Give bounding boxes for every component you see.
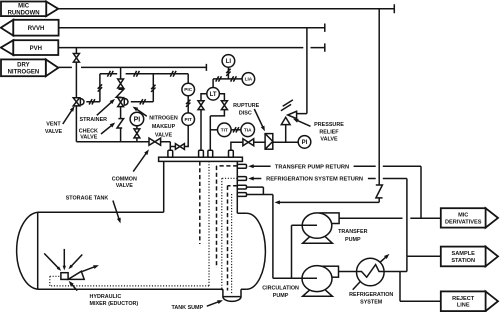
pipe common line <box>76 142 170 151</box>
pipe refrigeration system return <box>252 179 407 257</box>
check valve <box>117 119 124 128</box>
dip tube dashed C <box>228 186 238 291</box>
svg-text:TANK SUMP: TANK SUMP <box>172 305 204 311</box>
pipe to sample station <box>407 255 441 257</box>
tank right head <box>247 213 266 289</box>
valve V1 PVH isolation <box>73 54 79 63</box>
flag DRY NITROGEN <box>46 59 59 76</box>
svg-text:PUMP: PUMP <box>273 293 289 299</box>
svg-text:RUPTURE: RUPTURE <box>233 103 259 109</box>
nozzle stub N1 <box>168 150 173 157</box>
nozzle A <box>237 164 246 168</box>
valve PIT isolation <box>175 144 184 150</box>
svg-text:HYDRAULIC: HYDRAULIC <box>90 294 122 300</box>
mixer spray arrows <box>44 253 59 269</box>
svg-text:PI: PI <box>134 117 141 124</box>
pipe to reject line <box>400 272 441 302</box>
pipe nozzle D to circulation pump suction <box>247 195 318 279</box>
svg-text:RELIEF: RELIEF <box>319 129 339 135</box>
PRV spring <box>281 100 293 111</box>
instrument LI <box>222 55 235 68</box>
pipe PRV outlet to RVVH <box>297 28 307 114</box>
pipe rundown drop <box>277 9 379 203</box>
svg-text:LT: LT <box>210 92 217 98</box>
valve PI isolation <box>134 129 140 138</box>
nozzle C <box>237 185 246 189</box>
svg-text:TIT: TIT <box>221 128 228 133</box>
svg-text:PVH: PVH <box>30 46 42 52</box>
dip tube dashed 1 <box>199 161 201 244</box>
valve V3 makeup isolation <box>118 79 124 88</box>
svg-text:MIC: MIC <box>18 4 30 10</box>
dip tube dotted refrigeration return <box>222 178 238 290</box>
svg-text:NITROGEN: NITROGEN <box>149 116 178 122</box>
instrument TIT <box>218 123 232 137</box>
instrument PIC <box>182 83 195 96</box>
svg-text:STRAINER: STRAINER <box>80 117 108 123</box>
nozzle stub N3 <box>208 150 213 157</box>
pipe LT lower tap <box>210 94 224 150</box>
vent valve V2 <box>73 98 79 106</box>
pipe transfer pump suction <box>292 225 318 278</box>
signal LT to LIA <box>213 78 242 80</box>
svg-text:NITROGEN: NITROGEN <box>8 69 40 75</box>
instrument LT <box>212 79 214 88</box>
valve LT upper <box>198 101 204 110</box>
pipe refrigeration outlet <box>384 256 407 271</box>
svg-text:LINE: LINE <box>457 303 470 309</box>
svg-text:STORAGE TANK: STORAGE TANK <box>66 195 109 201</box>
signal TIT-TIA <box>231 129 241 131</box>
instrument PI <box>130 112 144 126</box>
svg-text:MIC: MIC <box>458 213 468 219</box>
nitrogen makeup valve <box>118 98 124 107</box>
rupture disc <box>265 134 273 150</box>
signal line to vent valve <box>86 74 100 102</box>
pipe PVH header (gap at RVVH drop) <box>58 43 325 51</box>
valve LT lower <box>221 101 227 110</box>
mixer outlet arrow <box>81 266 97 272</box>
nozzle D <box>237 193 246 197</box>
nozzle B <box>237 177 246 181</box>
tank sump <box>223 289 241 301</box>
svg-text:REFRIGERATION: REFRIGERATION <box>349 292 393 298</box>
pipe vent riser <box>75 48 77 142</box>
flag PVH <box>1 40 14 55</box>
svg-text:TRANSFER PUMP RETURN: TRANSFER PUMP RETURN <box>275 164 349 170</box>
signal PIC-PIT <box>187 96 189 113</box>
instrument LIA <box>242 73 255 86</box>
flag MIC DERIVATIVES <box>486 208 498 227</box>
tank manway plate <box>159 157 243 161</box>
svg-text:TRANSFER: TRANSFER <box>338 229 367 235</box>
svg-text:LIA: LIA <box>245 77 253 82</box>
svg-text:VALVE: VALVE <box>80 134 98 140</box>
svg-text:COMMON: COMMON <box>112 177 137 183</box>
pipe rupture disc line <box>231 142 298 150</box>
hydraulic mixer (eductor) <box>61 273 68 280</box>
flag REJECT LINE <box>486 291 498 311</box>
svg-text:VENT: VENT <box>46 121 61 127</box>
circulation pump <box>320 266 339 277</box>
instrument PIT <box>182 113 195 126</box>
arrow rundown to suction <box>275 200 280 204</box>
common valve <box>149 138 161 145</box>
svg-text:VALVE: VALVE <box>45 129 63 135</box>
svg-text:REJECT: REJECT <box>452 296 475 302</box>
storage tank shell <box>38 161 247 213</box>
svg-text:SAMPLE: SAMPLE <box>452 251 476 257</box>
signal header from PIC (gap at makeup branch) <box>100 74 188 83</box>
nozzle stub N4 <box>229 150 234 157</box>
pipe circulation discharge <box>339 271 357 273</box>
pipe transfer pump return <box>252 166 421 218</box>
svg-text:REFRIGERATION SYSTEM RETURN: REFRIGERATION SYSTEM RETURN <box>266 177 363 183</box>
pipe dry nitrogen main (gap at vent riser) <box>58 64 206 71</box>
signal LI drop <box>227 67 229 79</box>
instrument PI relief <box>298 136 311 149</box>
instrument TIA <box>241 123 255 137</box>
nozzle stub N2 <box>199 150 204 157</box>
svg-text:DRY: DRY <box>17 63 29 69</box>
pipe RVVH header <box>59 24 325 32</box>
svg-text:STATION: STATION <box>451 258 475 264</box>
pipe PRV inlet <box>285 125 287 142</box>
strainer <box>116 89 124 97</box>
svg-text:PIT: PIT <box>185 117 192 122</box>
pipe LT upper tap <box>201 94 207 150</box>
svg-text:LI: LI <box>226 59 232 65</box>
svg-text:VALVE: VALVE <box>320 136 338 142</box>
actuator cap vent valve <box>80 99 84 105</box>
dip tube dotted sump <box>231 194 233 295</box>
pipe MIC rundown header <box>58 4 394 13</box>
svg-text:DISC: DISC <box>239 110 252 116</box>
svg-text:VALVE: VALVE <box>116 183 134 189</box>
pipe nitrogen makeup branch <box>120 67 122 141</box>
svg-text:MIXER (EDUCTOR): MIXER (EDUCTOR) <box>90 301 139 307</box>
svg-text:SYSTEM: SYSTEM <box>360 299 383 305</box>
valve rupture disc isolation <box>243 139 254 146</box>
svg-text:PI: PI <box>302 140 308 146</box>
svg-text:PRESSURE: PRESSURE <box>314 122 344 128</box>
svg-text:TIA: TIA <box>244 128 252 133</box>
svg-text:MAKEUP: MAKEUP <box>152 124 176 130</box>
dip tube dashed transfer return <box>217 166 238 268</box>
signal line to makeup valve <box>131 74 154 102</box>
dip tube dotted mixer supply <box>50 161 209 286</box>
pipe TIT connection <box>210 129 217 131</box>
svg-text:PUMP: PUMP <box>345 237 361 243</box>
svg-text:CIRCULATION: CIRCULATION <box>262 285 299 291</box>
line break symbol <box>376 185 383 198</box>
svg-text:RUNDOWN: RUNDOWN <box>8 10 40 16</box>
flag RVVH <box>1 20 14 36</box>
svg-text:DERIVATIVES: DERIVATIVES <box>445 219 482 225</box>
flag SAMPLE STATION <box>486 247 498 267</box>
svg-text:RVVH: RVVH <box>28 26 45 32</box>
actuator cap makeup valve <box>124 99 128 106</box>
pipe PI tap <box>136 126 138 142</box>
pipe PIT tap <box>170 126 188 147</box>
transfer pump <box>320 213 339 224</box>
pipe nozzle C jog <box>247 187 264 194</box>
flag MIC RUNDOWN <box>46 2 58 17</box>
refrigeration system exchanger <box>357 258 385 286</box>
svg-text:VALVE: VALVE <box>155 133 173 139</box>
pressure relief valve <box>281 117 290 124</box>
svg-text:PIC: PIC <box>184 87 192 92</box>
pipe transfer discharge (gap at sample riser) <box>339 217 441 219</box>
